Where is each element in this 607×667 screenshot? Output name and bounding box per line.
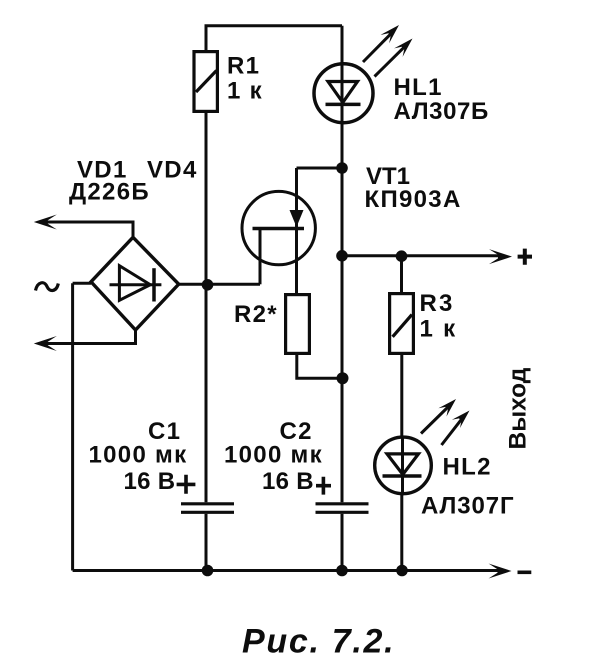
HL2 light arrow 1 <box>421 399 456 434</box>
svg-text:1 к: 1 к <box>420 316 457 343</box>
label C2 <box>280 418 313 445</box>
wire top rail <box>206 26 342 50</box>
junction dot bridge output node <box>202 279 214 291</box>
HL2 light arrow 2 <box>442 411 470 446</box>
resistor R3 <box>390 294 414 354</box>
wire plus output <box>342 254 499 257</box>
resistor R1 <box>194 52 217 112</box>
junction dot plus/right vertical <box>336 250 348 262</box>
label VD1 <box>77 157 128 184</box>
LED HL1 <box>314 64 373 123</box>
svg-text:КП903А: КП903А <box>365 186 462 213</box>
capacitor C2 <box>316 504 369 513</box>
AC tilde symbol <box>36 283 59 291</box>
wire AC input bottom <box>46 329 136 344</box>
transistor VT1 <box>242 168 315 293</box>
plus polarity C1 <box>177 475 196 494</box>
junction dot R2/right vertical <box>337 372 349 384</box>
value R1 1k <box>227 77 263 104</box>
svg-text:R3: R3 <box>420 290 455 317</box>
value R3 1k <box>420 316 457 343</box>
wire R3 bottom to rail through HL2 <box>400 355 403 571</box>
plus symbol <box>518 249 532 265</box>
LED HL2 <box>375 436 432 496</box>
wire R3 top lead <box>400 256 403 292</box>
label HL1 <box>394 74 443 101</box>
value C2 16V <box>262 468 314 495</box>
HL1 light arrow 1 <box>363 25 399 62</box>
label R2* <box>234 301 278 328</box>
label C1 <box>148 418 181 445</box>
svg-text:16 В: 16 В <box>262 468 314 495</box>
caption Рис. 7.2. <box>242 622 395 660</box>
wire gate to bridge node <box>179 283 260 286</box>
svg-text:R2*: R2* <box>234 301 278 328</box>
svg-text:16 В: 16 В <box>124 468 176 495</box>
value HL1 АЛ307Б <box>394 98 489 125</box>
junction dot at HL1/VT1 <box>336 162 348 174</box>
svg-text:АЛ307Г: АЛ307Г <box>421 492 515 519</box>
label R3 <box>420 290 455 317</box>
svg-text:VD4: VD4 <box>147 157 198 184</box>
node drain junction (VT1 top wire) <box>297 167 343 170</box>
arrowhead AC top <box>34 215 57 230</box>
svg-text:1000 мк: 1000 мк <box>89 442 188 469</box>
svg-text:1 к: 1 к <box>227 77 263 104</box>
label HL2 <box>443 454 492 481</box>
wire bottom rail <box>73 569 498 572</box>
value C1 16V <box>124 468 176 495</box>
label Vykhod output <box>504 367 531 449</box>
capacitor C1 <box>181 504 234 513</box>
wire AC input top <box>46 222 133 238</box>
svg-text:АЛ307Б: АЛ307Б <box>394 98 489 125</box>
value VT1 КП903А <box>365 186 462 213</box>
wire C2 to bottom rail <box>341 514 344 571</box>
resistor R2 <box>286 295 310 354</box>
junction dot C1/rail <box>202 565 214 577</box>
svg-text:1000 мк: 1000 мк <box>224 442 323 469</box>
label R1 <box>227 52 260 79</box>
arrowhead plus output <box>489 249 512 264</box>
label VD4 <box>147 157 198 184</box>
wire left-middle vertical (R1 to C1) <box>205 113 208 502</box>
wire left vertical <box>71 283 74 570</box>
svg-text:HL2: HL2 <box>443 454 492 481</box>
wire bridge minus to left vertical <box>73 282 91 285</box>
bridge rectifier VD1-VD4 <box>91 237 179 330</box>
junction dot plus/R3 <box>396 250 408 262</box>
label VT1 <box>366 163 410 190</box>
svg-text:Выход: Выход <box>504 367 531 449</box>
junction dot HL2/rail <box>396 565 408 577</box>
svg-text:R1: R1 <box>227 52 260 79</box>
junction dot C2/rail <box>336 565 348 577</box>
value C2 1000mk <box>224 442 323 469</box>
svg-text:HL1: HL1 <box>394 74 443 101</box>
svg-text:Д226Б: Д226Б <box>69 178 150 205</box>
svg-text:Рис. 7.2.: Рис. 7.2. <box>242 622 395 660</box>
value HL2 АЛ307Г <box>421 492 515 519</box>
wire C1 to bottom rail <box>205 514 208 571</box>
arrowhead AC bottom <box>34 336 57 351</box>
plus polarity C2 <box>316 477 331 495</box>
wire right vertical (top corner through HL1, VT1 drain node, C2) <box>341 26 344 503</box>
wire R2 bottom to right vertical <box>297 355 342 378</box>
minus symbol <box>518 570 532 574</box>
HL1 light arrow 2 <box>375 39 413 77</box>
arrowhead minus output <box>489 564 512 579</box>
value bridge Д226Б <box>69 178 150 205</box>
value C1 1000mk <box>89 442 188 469</box>
